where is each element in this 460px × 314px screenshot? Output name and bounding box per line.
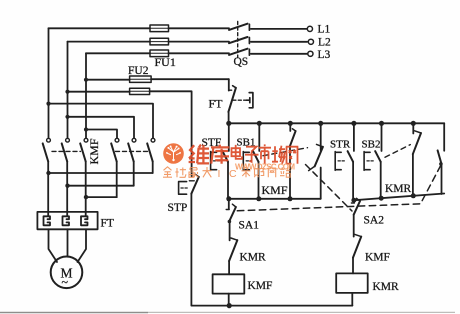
glyph gou bbox=[254, 169, 264, 178]
glyph quan bbox=[163, 167, 172, 177]
wire output cross B bbox=[68, 185, 134, 187]
svg-text:C: C bbox=[229, 168, 237, 180]
glyph cai bbox=[242, 167, 251, 177]
FT heater element 3 bbox=[81, 216, 88, 225]
watermark logo bbox=[163, 143, 184, 164]
svg-text:SB2: SB2 bbox=[362, 139, 381, 151]
contact NC right (linked to SB1) bbox=[412, 123, 414, 133]
watermark slogan glyphs bbox=[163, 167, 212, 178]
FT actuator dashes bbox=[233, 99, 246, 101]
svg-text:KMR: KMR bbox=[385, 183, 412, 195]
switch QS blade 1 bbox=[229, 24, 248, 30]
svg-text:KMF: KMF bbox=[262, 183, 288, 197]
watermark bbox=[163, 143, 298, 180]
svg-text:L1: L1 bbox=[318, 24, 331, 36]
contactor KMF pole 3 bbox=[84, 138, 88, 142]
FT actuator symbol bbox=[246, 93, 253, 108]
wire output cross C bbox=[86, 196, 117, 198]
glyph da bbox=[203, 167, 212, 177]
glyph wang2 bbox=[268, 168, 276, 177]
wire QS to L2 bbox=[251, 41, 307, 43]
wire L3 row bbox=[86, 52, 150, 54]
svg-text:L3: L3 bbox=[318, 49, 331, 61]
coil KMF bbox=[213, 274, 245, 293]
fuse FU1a bbox=[150, 25, 169, 32]
wire phase A drop bbox=[48, 28, 50, 138]
KMR linkage dashes bbox=[116, 150, 150, 152]
wire FU2a feed bbox=[86, 79, 130, 81]
wire FU2b to STP riser bbox=[150, 91, 192, 176]
terminal L1 bbox=[307, 26, 312, 31]
svg-text:SA1: SA1 bbox=[239, 220, 260, 232]
wire phase B drop bbox=[67, 42, 69, 139]
contactor KMR pole 3 bbox=[151, 138, 155, 142]
thermal relay FT heater box bbox=[37, 212, 97, 229]
wire FU1c to QS bbox=[169, 52, 230, 54]
contactor KMF pole 2 bbox=[66, 138, 70, 142]
fuse FU1b bbox=[150, 38, 169, 45]
linkage dash NC-left to SA2 bbox=[306, 165, 353, 212]
button SB1 bbox=[258, 123, 260, 151]
watermark title glyph ku bbox=[211, 145, 229, 164]
svg-text:~: ~ bbox=[62, 275, 69, 289]
svg-text:KMF: KMF bbox=[365, 252, 390, 264]
wire FU2b feed bbox=[68, 91, 130, 93]
contactor KMF pole 1 bbox=[47, 138, 51, 142]
wire L1 row bbox=[49, 27, 151, 29]
wire FT to motor right bbox=[78, 229, 87, 262]
svg-text:FT: FT bbox=[101, 218, 114, 230]
wire L2 row bbox=[68, 41, 151, 43]
contact KMF NC (above KMR coil) bbox=[353, 237, 361, 258]
contactor KMR pole 2 bbox=[132, 138, 136, 142]
control bottom rail bbox=[192, 305, 353, 307]
switch SA2 bbox=[353, 200, 355, 202]
watermark title glyph zi bbox=[245, 147, 259, 162]
switch SA1 bbox=[228, 199, 230, 209]
terminal L2 bbox=[308, 39, 313, 44]
svg-text:I: I bbox=[218, 168, 221, 180]
FT heater element 1 bbox=[44, 216, 51, 225]
wire FT to motor mid bbox=[67, 229, 69, 256]
wire branch C to KMR bbox=[86, 130, 117, 139]
QS mechanical link bbox=[237, 22, 239, 58]
wire FU2a to FT bbox=[151, 78, 229, 80]
wire QS to L1 bbox=[251, 28, 307, 30]
KMF linkage dashes bbox=[52, 150, 81, 152]
svg-text:SA2: SA2 bbox=[364, 215, 385, 227]
linkage dash SB1 to NC-left bbox=[263, 148, 308, 156]
wire FT to motor left bbox=[49, 229, 58, 262]
svg-text:FU1: FU1 bbox=[155, 55, 176, 69]
watermark title glyph wei bbox=[189, 145, 230, 164]
button SB2 bbox=[381, 123, 383, 151]
glyph zui bbox=[189, 168, 199, 178]
watermark title glyph shi bbox=[259, 144, 271, 163]
contact KMR NC (above KMF coil) bbox=[229, 240, 237, 261]
svg-text:QS: QS bbox=[234, 56, 249, 68]
svg-text:STP: STP bbox=[168, 202, 188, 214]
watermark title glyph wang bbox=[286, 147, 299, 164]
contact KMF self-hold bbox=[289, 123, 291, 131]
contact NC left (linked to SA2) bbox=[320, 123, 322, 150]
glyph zhan bbox=[280, 167, 291, 177]
wire branch A to KMR bbox=[49, 104, 154, 139]
button STR bbox=[353, 123, 355, 151]
FT heater element 2 bbox=[63, 216, 70, 225]
right box bottom bus bbox=[353, 194, 444, 201]
linkage dash SB2 to NC-right bbox=[385, 145, 410, 158]
fuse FU2b bbox=[130, 88, 150, 94]
wire QS to L3 bbox=[251, 53, 307, 55]
control: FT NC contact bbox=[228, 79, 230, 90]
wire branch B to KMR bbox=[68, 117, 135, 139]
linkage dash SA1 to KMR self-hold bbox=[237, 165, 440, 211]
glyph qiu bbox=[175, 168, 186, 178]
svg-text:KMR: KMR bbox=[373, 281, 400, 293]
svg-text:FU2: FU2 bbox=[128, 65, 149, 77]
wire FU1b to QS bbox=[169, 41, 230, 43]
contact KMR self-hold bbox=[443, 123, 445, 151]
fuse FU2a bbox=[130, 76, 152, 82]
terminal L3 bbox=[308, 51, 313, 56]
motor M bbox=[51, 257, 83, 289]
svg-text:STR: STR bbox=[330, 139, 351, 151]
button STP bbox=[189, 180, 194, 182]
wire FU1a to QS bbox=[169, 27, 230, 29]
scan bottom edge bbox=[0, 311, 455, 313]
control top bus bbox=[229, 122, 444, 124]
watermark title glyph chang bbox=[272, 146, 285, 164]
contactor KMR pole 1 bbox=[115, 138, 119, 142]
left box bottom bus bbox=[229, 198, 321, 200]
wire phase C drop bbox=[85, 53, 87, 138]
button STF bbox=[228, 123, 230, 151]
fuse FU1c bbox=[150, 50, 169, 57]
svg-text:L2: L2 bbox=[318, 37, 331, 49]
watermark title glyph dian bbox=[232, 145, 243, 159]
switch QS blade 3 bbox=[229, 49, 248, 55]
wire output cross A bbox=[49, 172, 153, 174]
svg-text:KMF: KMF bbox=[87, 138, 101, 164]
svg-text:FT: FT bbox=[209, 97, 224, 111]
svg-text:KMR: KMR bbox=[240, 252, 267, 264]
coil KMR bbox=[336, 273, 368, 293]
svg-text:KMF: KMF bbox=[248, 280, 273, 292]
switch QS blade 2 bbox=[229, 37, 248, 43]
